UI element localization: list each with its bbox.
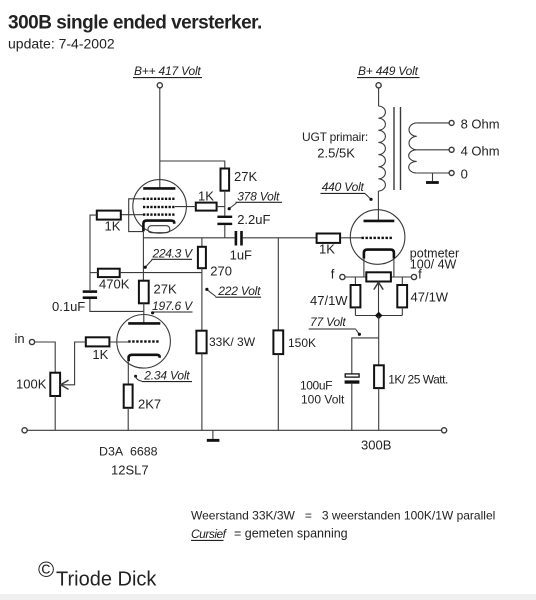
svg-text:222 Volt: 222 Volt: [217, 284, 261, 298]
svg-text:27K: 27K: [234, 169, 257, 184]
svg-text:= gemeten spanning: = gemeten spanning: [234, 527, 348, 541]
svg-text:8 Ohm: 8 Ohm: [461, 117, 500, 132]
svg-text:Weerstand 33K/3W = 3 weers: Weerstand 33K/3W = 3 weerstanden 100K/1W…: [191, 509, 495, 523]
svg-text:100/ 4W: 100/ 4W: [410, 258, 457, 272]
svg-text:100uF: 100uF: [300, 379, 332, 393]
svg-text:300B: 300B: [361, 438, 391, 453]
svg-text:2.2uF: 2.2uF: [237, 212, 270, 227]
svg-text:2.5/5K: 2.5/5K: [317, 146, 355, 161]
svg-text:300B single ended versterker.: 300B single ended versterker.: [8, 13, 262, 34]
svg-text:Cursief: Cursief: [191, 527, 228, 541]
svg-text:0.1uF: 0.1uF: [52, 299, 85, 314]
svg-text:378 Volt: 378 Volt: [237, 189, 280, 203]
svg-text:B+ 449 Volt: B+ 449 Volt: [358, 64, 419, 78]
svg-text:2.34 Volt: 2.34 Volt: [143, 369, 190, 383]
svg-text:270: 270: [210, 264, 232, 279]
svg-text:197.6 V: 197.6 V: [152, 299, 193, 313]
svg-text:1K: 1K: [319, 242, 335, 257]
svg-text:33K/ 3W: 33K/ 3W: [209, 335, 256, 349]
svg-text:224.3 V: 224.3 V: [152, 247, 194, 261]
svg-text:440 Volt: 440 Volt: [322, 180, 365, 194]
svg-text:in: in: [15, 331, 25, 346]
svg-text:27K: 27K: [154, 282, 177, 297]
svg-text:f: f: [331, 267, 335, 282]
svg-text:150K: 150K: [288, 336, 316, 350]
svg-text:47/1W: 47/1W: [411, 290, 449, 305]
svg-text:100 Volt: 100 Volt: [301, 393, 345, 407]
svg-text:update: 7-4-2002: update: 7-4-2002: [8, 36, 115, 52]
svg-text:1K: 1K: [105, 219, 121, 234]
svg-text:©: ©: [38, 557, 54, 582]
svg-text:2K7: 2K7: [138, 397, 161, 412]
svg-text:470K: 470K: [99, 277, 130, 292]
svg-text:4 Ohm: 4 Ohm: [461, 143, 500, 158]
svg-text:77 Volt: 77 Volt: [310, 315, 346, 329]
svg-text:47/1W: 47/1W: [310, 293, 348, 308]
svg-text:1K: 1K: [198, 189, 214, 204]
svg-text:UGT primair:: UGT primair:: [302, 130, 368, 144]
svg-text:1K: 1K: [92, 347, 108, 362]
svg-text:12SL7: 12SL7: [111, 462, 149, 477]
svg-text:Triode Dick: Triode Dick: [56, 569, 157, 591]
svg-text:D3A 6688: D3A 6688: [99, 444, 158, 458]
svg-text:1K/ 25 Watt.: 1K/ 25 Watt.: [388, 372, 448, 386]
svg-text:1uF: 1uF: [230, 248, 252, 263]
svg-text:100K: 100K: [16, 377, 47, 392]
svg-text:B++ 417 Volt: B++ 417 Volt: [134, 64, 201, 78]
svg-text:0: 0: [461, 167, 468, 182]
